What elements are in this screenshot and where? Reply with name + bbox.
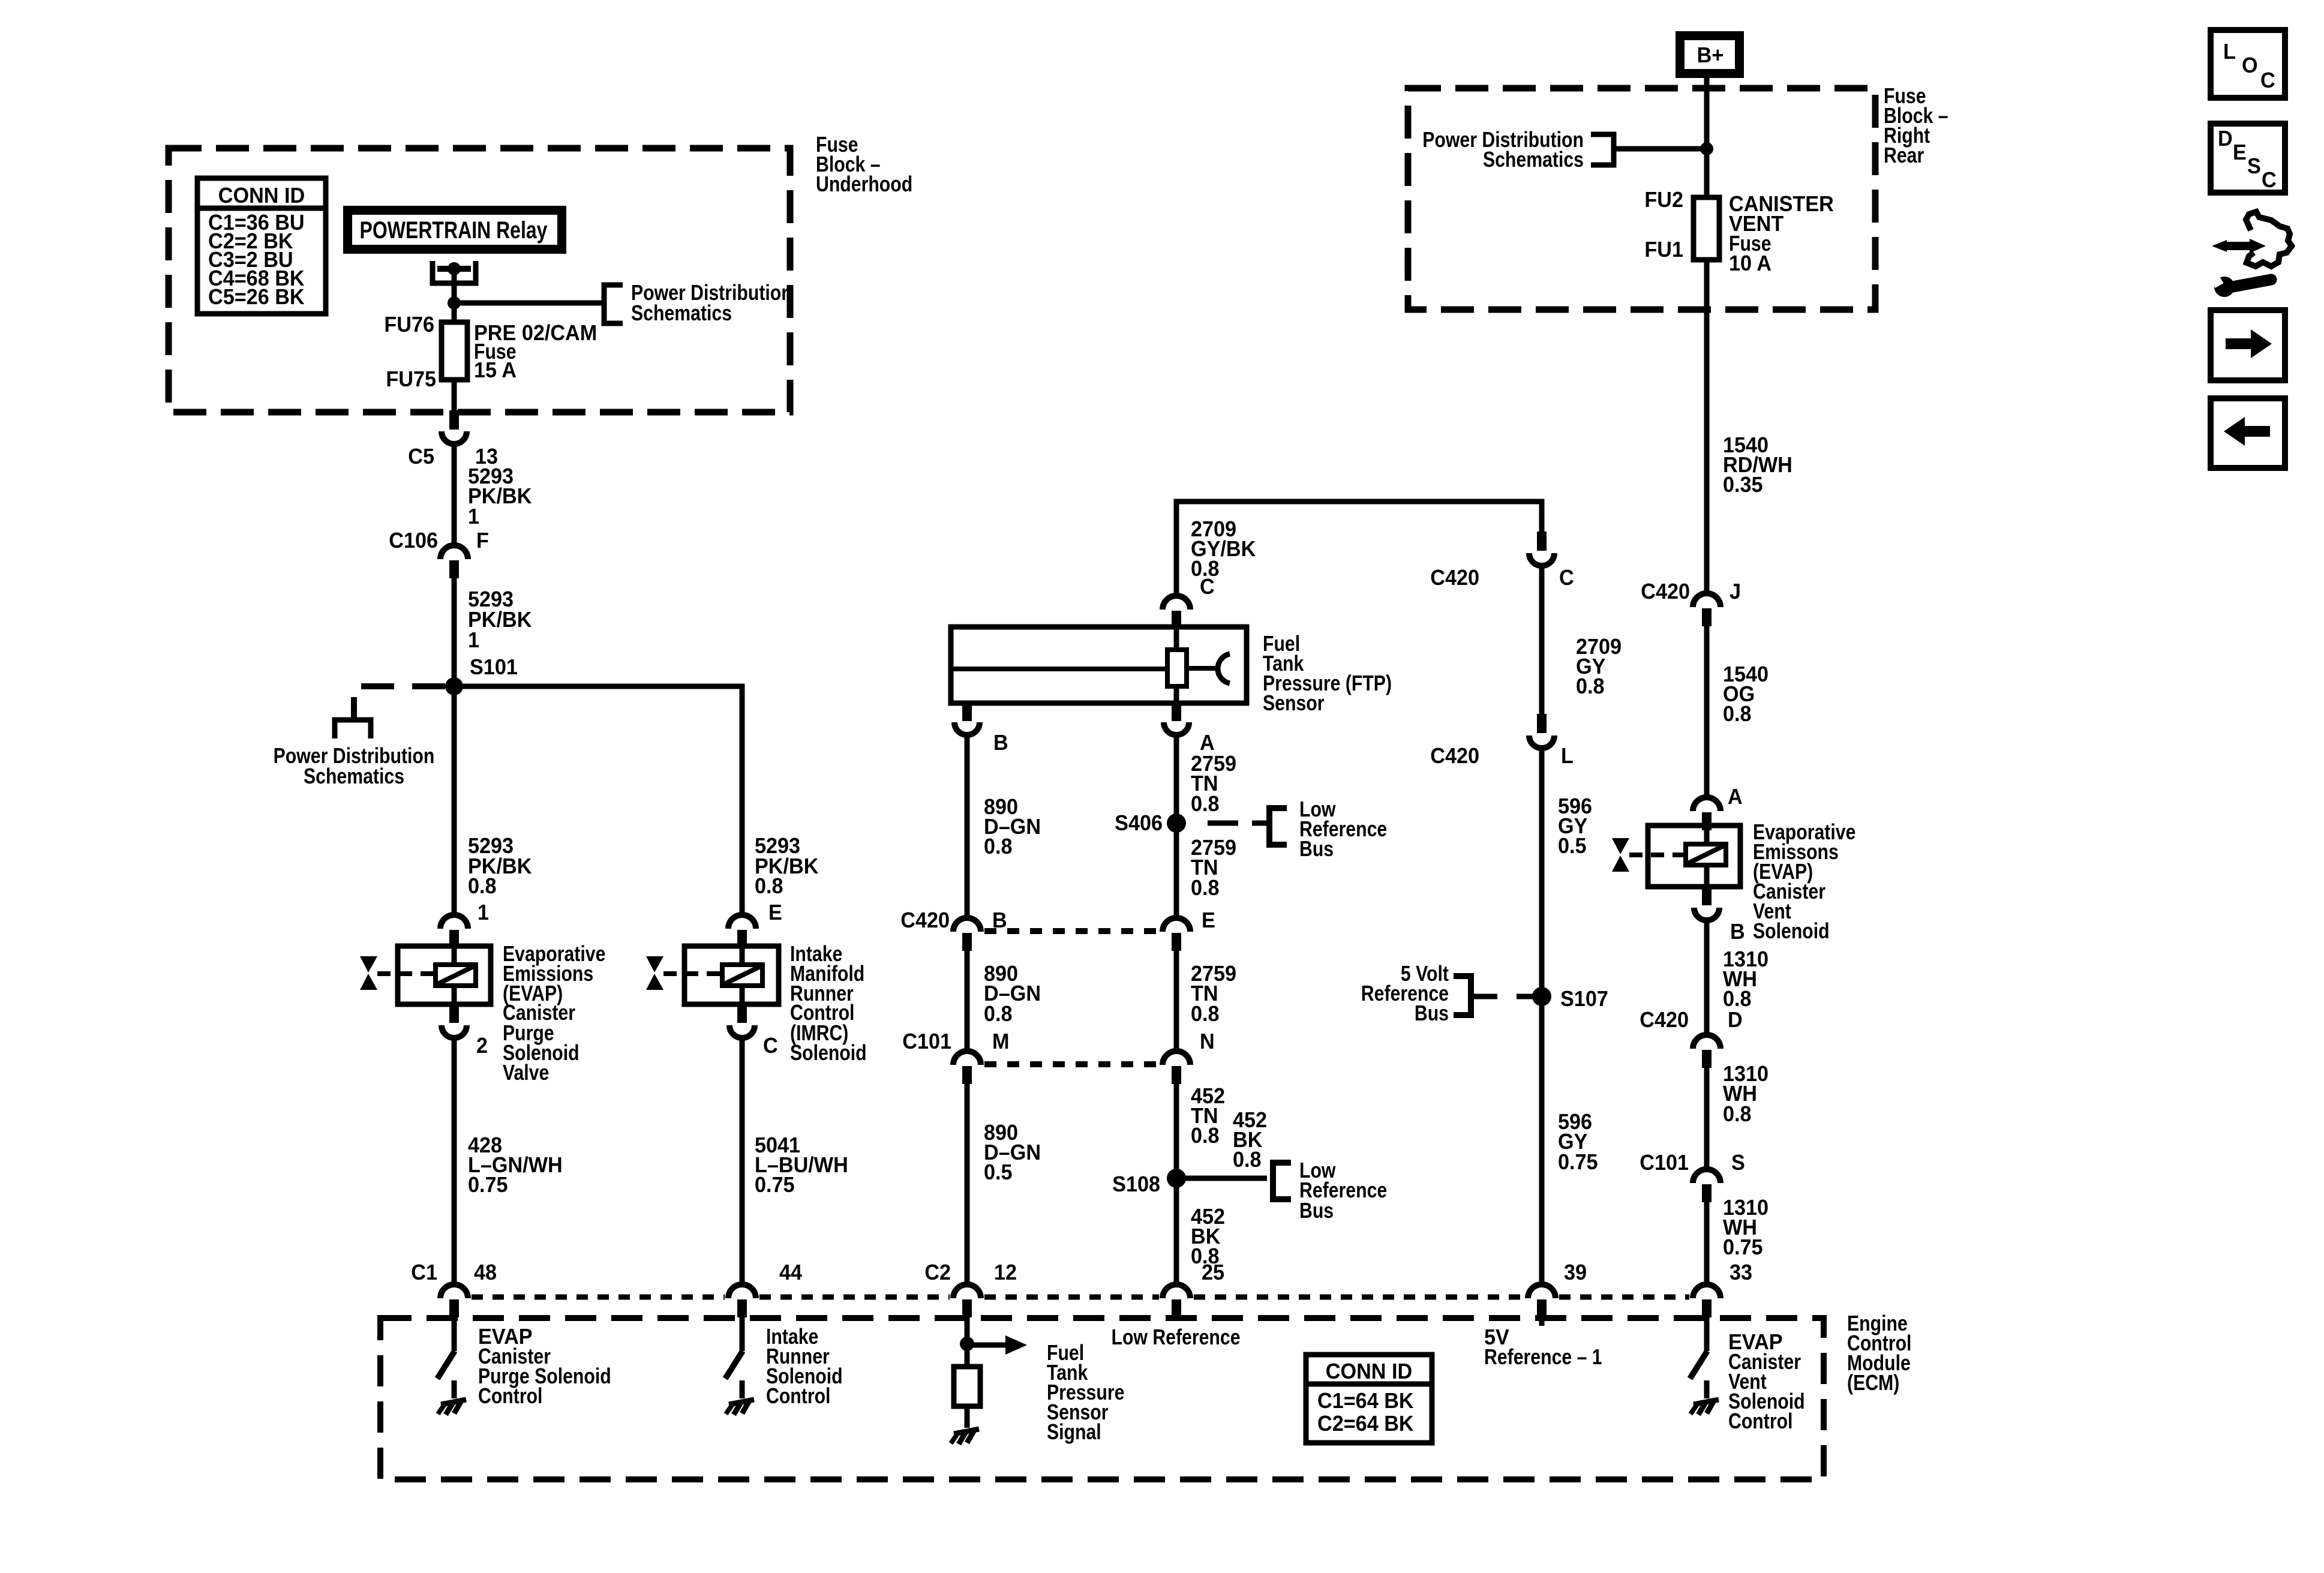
low reference bus bracket (S108) bbox=[1273, 1163, 1291, 1199]
svg-text:C1: C1 bbox=[411, 1260, 437, 1284]
svg-text:CONN ID: CONN ID bbox=[218, 184, 305, 208]
sidebar vehicle/wrench icon bbox=[2246, 212, 2292, 266]
svg-text:Control: Control bbox=[1728, 1410, 1792, 1434]
EVAP canister purge solenoid valve bbox=[398, 946, 491, 1004]
wire IMRC to pin 44 bbox=[740, 1040, 745, 1284]
svg-text:Low Reference: Low Reference bbox=[1111, 1326, 1240, 1350]
svg-text:J: J bbox=[1730, 580, 1741, 604]
svg-text:Rear: Rear bbox=[1884, 144, 1924, 168]
fuse block right rear dashed box bbox=[1408, 88, 1875, 310]
intake runner control switch bbox=[740, 1317, 745, 1351]
intake manifold runner control solenoid bbox=[684, 946, 779, 1004]
svg-text:Sensor: Sensor bbox=[1263, 692, 1325, 716]
svg-text:FU1: FU1 bbox=[1644, 238, 1683, 262]
top wire FTP to C420-C bbox=[1176, 502, 1542, 595]
splice S406 bbox=[1167, 813, 1186, 833]
FTP signal arrow bbox=[967, 1343, 1007, 1348]
wire FU1 to C420-C column bbox=[1704, 260, 1710, 593]
svg-text:1: 1 bbox=[468, 628, 479, 652]
svg-text:Bus: Bus bbox=[1299, 837, 1334, 861]
svg-text:B: B bbox=[993, 731, 1008, 755]
svg-text:Underhood: Underhood bbox=[816, 173, 912, 197]
svg-text:D: D bbox=[1728, 1008, 1743, 1032]
svg-text:Schematics: Schematics bbox=[631, 302, 732, 326]
svg-text:C420: C420 bbox=[1430, 744, 1479, 768]
svg-text:Signal: Signal bbox=[1047, 1421, 1101, 1445]
svg-text:C: C bbox=[763, 1034, 778, 1058]
wire C420-B to C101-M bbox=[965, 951, 970, 1051]
resistor (FTP signal) bbox=[954, 1367, 980, 1406]
wire C420-L to S107 bbox=[1539, 748, 1545, 1284]
connector C420 pin C (5V ref) bbox=[1537, 532, 1547, 551]
CONN ID table (underhood) bbox=[197, 178, 326, 314]
svg-text:F: F bbox=[476, 529, 489, 553]
wire C420-J to pin A bbox=[1704, 626, 1710, 796]
svg-text:B+: B+ bbox=[1697, 43, 1724, 67]
svg-text:0.75: 0.75 bbox=[468, 1173, 508, 1197]
svg-text:C101: C101 bbox=[1640, 1151, 1689, 1175]
wire B+ into fuse block bbox=[1704, 78, 1710, 197]
svg-text:S: S bbox=[2247, 154, 2261, 178]
ground (FTP signal) bbox=[951, 1429, 979, 1444]
svg-text:2: 2 bbox=[476, 1034, 488, 1058]
wire C420-C to C420-L bbox=[1539, 568, 1545, 715]
svg-text:1: 1 bbox=[478, 900, 489, 924]
svg-text:10 A: 10 A bbox=[1729, 251, 1771, 275]
FTP signal wire into ECM bbox=[965, 1317, 970, 1367]
svg-text:Bus: Bus bbox=[1415, 1002, 1449, 1026]
svg-text:Control: Control bbox=[766, 1385, 830, 1409]
wire C101-M to C2-12 bbox=[965, 1083, 970, 1284]
relay contact symbol bbox=[433, 261, 476, 283]
ground (vent control) bbox=[1691, 1400, 1719, 1415]
power distribution reference bracket bbox=[604, 285, 623, 323]
svg-text:FU76: FU76 bbox=[384, 313, 434, 337]
svg-text:Bus: Bus bbox=[1299, 1199, 1334, 1223]
ground (intake runner control) bbox=[726, 1400, 754, 1415]
svg-text:0.8: 0.8 bbox=[1191, 792, 1220, 816]
svg-text:1: 1 bbox=[468, 505, 479, 529]
svg-text:C: C bbox=[1559, 566, 1574, 590]
svg-text:15 A: 15 A bbox=[474, 358, 517, 382]
wire junction to power distribution reference (right) bbox=[1615, 146, 1707, 152]
CONN ID table (ECM) bbox=[1306, 1355, 1432, 1443]
svg-text:0.75: 0.75 bbox=[1558, 1150, 1598, 1174]
engine control module dashed box bbox=[380, 1318, 1824, 1479]
wire C5 to C106 bbox=[452, 446, 457, 544]
svg-text:Solenoid: Solenoid bbox=[1753, 920, 1830, 944]
EVAP purge control switch bbox=[452, 1317, 457, 1351]
svg-text:S101: S101 bbox=[470, 655, 518, 679]
svg-text:0.35: 0.35 bbox=[1723, 473, 1763, 497]
fuse block underhood dashed box bbox=[169, 148, 790, 412]
wire C420-D to C101-S bbox=[1704, 1068, 1710, 1169]
svg-text:0.5: 0.5 bbox=[984, 1160, 1013, 1184]
IMRC valve symbol (bowtie) bbox=[646, 956, 663, 990]
svg-text:C420: C420 bbox=[1641, 580, 1690, 604]
svg-text:25: 25 bbox=[1202, 1260, 1224, 1284]
wire bracket to S107 bbox=[1471, 994, 1497, 999]
wire C106 to S101 bbox=[452, 577, 457, 686]
svg-text:C101: C101 bbox=[902, 1029, 951, 1053]
svg-text:0.8: 0.8 bbox=[1723, 987, 1752, 1011]
wire S101 branch to IMRC bbox=[454, 686, 742, 914]
svg-text:S107: S107 bbox=[1560, 987, 1608, 1011]
svg-text:0.8: 0.8 bbox=[1723, 1102, 1752, 1126]
vent valve symbol (bowtie) bbox=[1612, 838, 1629, 872]
svg-text:0.8: 0.8 bbox=[1233, 1148, 1262, 1172]
C101 connector dashed link M-N bbox=[984, 1061, 1160, 1067]
wire C101-N to S108 bbox=[1174, 1083, 1179, 1284]
svg-text:(ECM): (ECM) bbox=[1847, 1371, 1899, 1395]
svg-text:0.8: 0.8 bbox=[1576, 674, 1605, 698]
wire FTP-B to C420-B bbox=[965, 737, 970, 918]
svg-text:S: S bbox=[1731, 1151, 1745, 1175]
svg-text:POWERTRAIN Relay: POWERTRAIN Relay bbox=[360, 217, 548, 244]
svg-text:C420: C420 bbox=[900, 908, 950, 932]
wire pin B to C420-D bbox=[1704, 922, 1710, 1034]
C420 connector dashed link B-E bbox=[984, 928, 1160, 934]
svg-text:44: 44 bbox=[779, 1260, 803, 1284]
svg-text:Schematics: Schematics bbox=[1483, 148, 1584, 172]
wire S108 to low reference bus bracket bbox=[1176, 1176, 1267, 1181]
splice S101 bbox=[445, 677, 463, 695]
svg-text:M: M bbox=[992, 1029, 1009, 1053]
svg-text:Control: Control bbox=[478, 1385, 542, 1409]
svg-text:C2=64 BK: C2=64 BK bbox=[1317, 1412, 1414, 1436]
connector C5 pin 13 bbox=[449, 410, 459, 430]
FTP sensor pin A bbox=[1172, 703, 1181, 721]
purge solenoid pin 2 bbox=[449, 1005, 459, 1023]
svg-text:E: E bbox=[768, 900, 782, 924]
svg-text:B: B bbox=[1730, 920, 1745, 944]
5V reference-1 wire into ECM bbox=[1539, 1317, 1545, 1326]
svg-text:0.8: 0.8 bbox=[1191, 1124, 1220, 1148]
FTP sensor pin B bbox=[962, 703, 972, 721]
dashed reference from S101 bbox=[354, 686, 445, 720]
wire S101 down to purge solenoid pin 1 bbox=[452, 686, 457, 914]
svg-text:L: L bbox=[1561, 744, 1574, 768]
node dot (FTP signal) bbox=[960, 1337, 974, 1351]
ground (purge control) bbox=[438, 1400, 466, 1415]
ECM connector dashed link row bbox=[472, 1295, 725, 1300]
svg-text:C: C bbox=[2262, 168, 2277, 192]
svg-text:0.8: 0.8 bbox=[468, 874, 497, 898]
svg-text:FU75: FU75 bbox=[386, 367, 436, 391]
node junction dot (B+ feed) bbox=[1700, 142, 1713, 155]
svg-text:L: L bbox=[2223, 40, 2236, 64]
svg-text:48: 48 bbox=[474, 1260, 497, 1284]
sidebar LOC icon bbox=[2211, 30, 2285, 98]
wire C101-S to pin 33 bbox=[1704, 1202, 1710, 1284]
svg-text:0.8: 0.8 bbox=[984, 1002, 1013, 1026]
sidebar DESC icon bbox=[2211, 124, 2285, 193]
svg-text:O: O bbox=[2242, 53, 2258, 77]
svg-text:Solenoid: Solenoid bbox=[790, 1041, 867, 1065]
fuel tank pressure sensor box bbox=[951, 627, 1247, 703]
power distribution reference bracket (right) bbox=[1591, 134, 1614, 165]
svg-text:C1=64 BK: C1=64 BK bbox=[1317, 1389, 1414, 1413]
wire relay to junction bbox=[452, 269, 457, 322]
svg-text:C: C bbox=[2260, 68, 2275, 92]
B+ battery feed box bbox=[1676, 31, 1744, 78]
wire fuse to C5 bbox=[452, 380, 457, 420]
svg-text:C5=26 BK: C5=26 BK bbox=[208, 285, 305, 309]
node junction dot bbox=[448, 296, 461, 310]
svg-text:Reference – 1: Reference – 1 bbox=[1484, 1346, 1602, 1370]
svg-text:0.75: 0.75 bbox=[1723, 1235, 1763, 1259]
5 volt reference bus bracket bbox=[1454, 976, 1471, 1015]
wire purge solenoid to pin 48 bbox=[452, 1040, 457, 1284]
low reference bus bracket (S406) bbox=[1269, 808, 1287, 845]
svg-text:C420: C420 bbox=[1640, 1008, 1689, 1032]
splice S107 bbox=[1532, 987, 1551, 1006]
IMRC solenoid pin C bbox=[737, 1005, 747, 1023]
sidebar back arrow icon bbox=[2211, 398, 2285, 468]
wire FTP-A to S406 bbox=[1174, 737, 1179, 918]
svg-text:C5: C5 bbox=[408, 445, 434, 469]
svg-text:A: A bbox=[1200, 731, 1215, 755]
svg-text:E: E bbox=[2233, 140, 2247, 164]
purge valve symbol (bowtie) bbox=[360, 956, 377, 990]
reference fork symbol bbox=[335, 720, 371, 739]
POWERTRAIN Relay box bbox=[343, 206, 566, 254]
fuse FU76/FU75 PRE 02/CAM bbox=[442, 322, 467, 380]
svg-text:0.8: 0.8 bbox=[1191, 876, 1220, 900]
svg-text:0.75: 0.75 bbox=[755, 1173, 795, 1197]
svg-text:Schematics: Schematics bbox=[304, 765, 404, 789]
dashed reference from S406 bbox=[1208, 821, 1238, 826]
svg-text:N: N bbox=[1200, 1029, 1215, 1053]
svg-text:0.5: 0.5 bbox=[1558, 834, 1587, 858]
svg-text:Valve: Valve bbox=[503, 1061, 549, 1085]
svg-text:S108: S108 bbox=[1112, 1172, 1160, 1196]
EVAP vent control switch bbox=[1704, 1317, 1710, 1351]
svg-text:0.8: 0.8 bbox=[1191, 1002, 1220, 1026]
svg-text:A: A bbox=[1728, 785, 1743, 809]
EVAP canister vent solenoid bbox=[1648, 825, 1740, 887]
fuse FU2/FU1 CANISTER VENT bbox=[1694, 197, 1719, 260]
svg-text:C2: C2 bbox=[924, 1260, 951, 1284]
vent solenoid pin B bbox=[1702, 887, 1712, 905]
wire junction to power distribution reference bbox=[454, 301, 604, 306]
svg-text:C420: C420 bbox=[1430, 566, 1479, 590]
svg-text:FU2: FU2 bbox=[1644, 188, 1683, 212]
svg-text:CONN ID: CONN ID bbox=[1326, 1359, 1412, 1383]
svg-text:39: 39 bbox=[1564, 1260, 1587, 1284]
svg-text:D: D bbox=[2218, 127, 2233, 151]
sidebar next arrow icon bbox=[2211, 310, 2285, 380]
svg-text:33: 33 bbox=[1730, 1260, 1752, 1284]
connector C420 pin L bbox=[1537, 714, 1547, 733]
svg-text:C: C bbox=[1200, 575, 1215, 599]
svg-text:S406: S406 bbox=[1115, 811, 1163, 835]
splice S108 bbox=[1167, 1169, 1186, 1188]
svg-text:12: 12 bbox=[994, 1260, 1017, 1284]
svg-text:0.8: 0.8 bbox=[755, 874, 783, 898]
svg-text:C106: C106 bbox=[389, 529, 438, 553]
svg-text:0.8: 0.8 bbox=[1723, 702, 1752, 726]
svg-text:E: E bbox=[1202, 908, 1215, 932]
wire C420-E to C101-N bbox=[1174, 951, 1179, 1051]
svg-text:0.8: 0.8 bbox=[984, 834, 1013, 858]
